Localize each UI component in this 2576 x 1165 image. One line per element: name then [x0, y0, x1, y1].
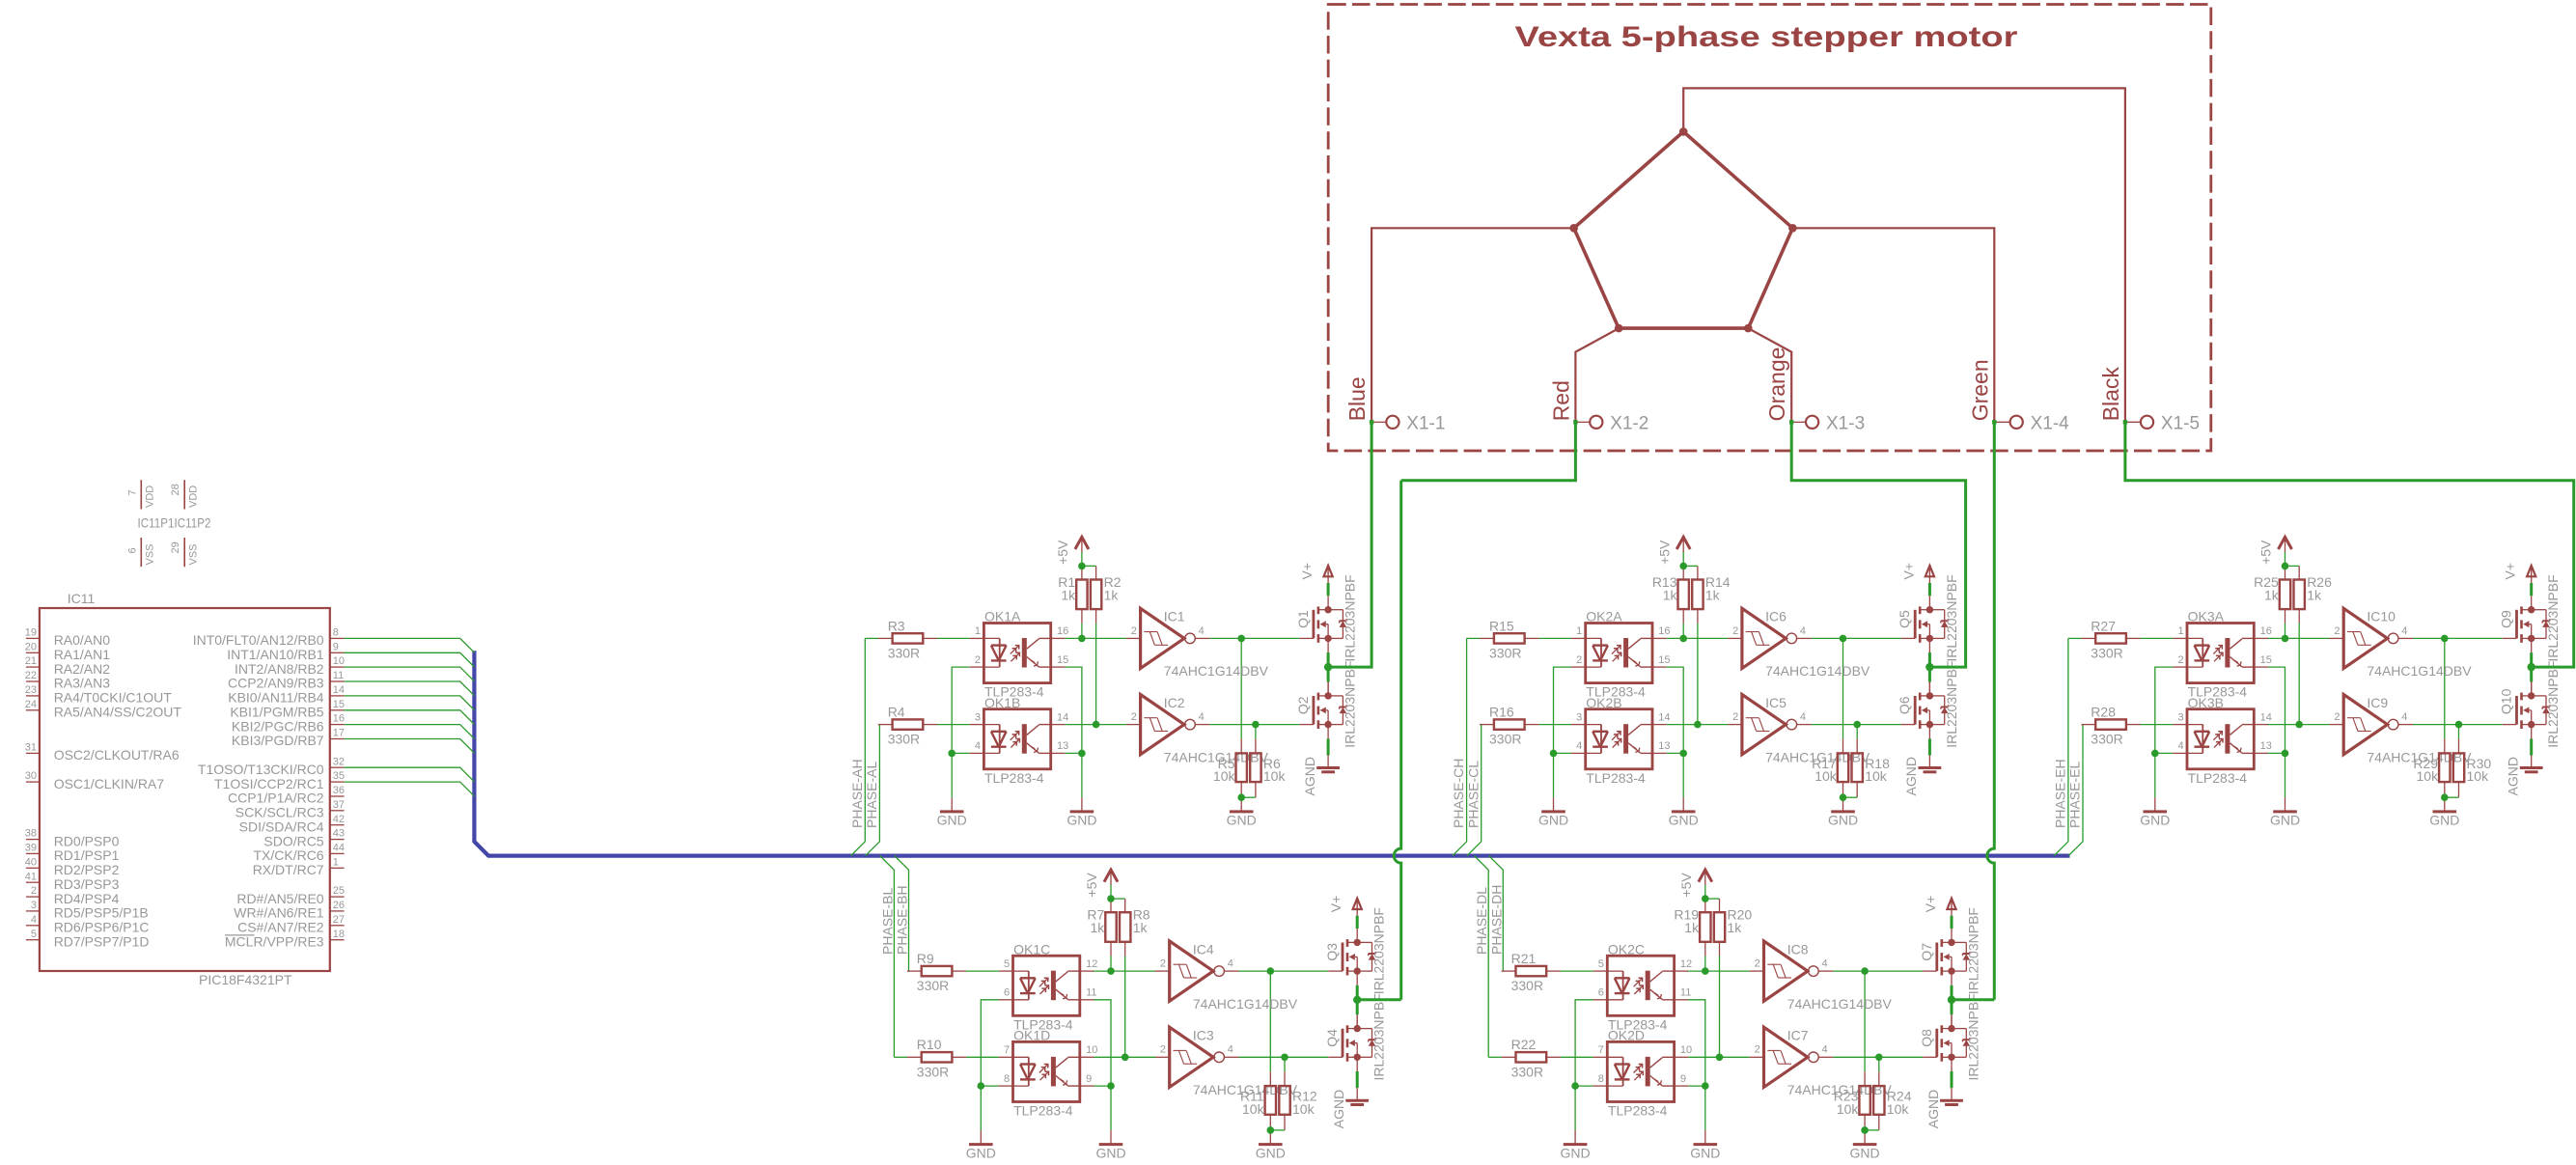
- wire +5V split: [2285, 565, 2300, 567]
- svg-text:V+: V+: [1900, 563, 1916, 580]
- svg-text:RD#/AN5/RE0: RD#/AN5/RE0: [236, 891, 323, 906]
- junction phase D node: [1948, 996, 1955, 1004]
- wire emitter chain to GND: [1682, 753, 1684, 797]
- svg-text:PIC18F4321PT: PIC18F4321PT: [199, 972, 292, 987]
- svg-text:IC1: IC1: [1164, 609, 1185, 624]
- svg-text:30: 30: [25, 770, 37, 782]
- svg-text:GND: GND: [937, 813, 967, 828]
- supply +5V: [1055, 537, 1089, 565]
- resistor R8 1k: [1120, 907, 1150, 942]
- resistor R13 1k: [1652, 574, 1689, 609]
- svg-text:R28: R28: [2091, 705, 2116, 720]
- svg-text:74AHC1G14DBV: 74AHC1G14DBV: [1765, 663, 1870, 679]
- svg-text:37: 37: [333, 799, 345, 811]
- svg-text:18: 18: [333, 929, 345, 940]
- svg-text:RD5/PSP5/P1B: RD5/PSP5/P1B: [54, 905, 149, 921]
- resistor R3 330R: [878, 618, 937, 660]
- wire OK1D emitter: [1094, 1085, 1112, 1087]
- wire V+ to Q7 drain: [1951, 916, 1953, 929]
- svg-text:26: 26: [333, 900, 345, 911]
- svg-text:2: 2: [1732, 711, 1738, 723]
- svg-text:OK3B: OK3B: [2188, 695, 2224, 710]
- resistor R10 330R: [907, 1037, 966, 1079]
- svg-text:KBI2/PGC/RB6: KBI2/PGC/RB6: [232, 718, 324, 734]
- wire Q7 gate to R23: [1864, 971, 1866, 1071]
- wire R22 to OK2D pin anode: [1561, 1056, 1593, 1058]
- wire PHASE-DL: [1475, 856, 1489, 1058]
- ground GND: [1828, 797, 1858, 828]
- svg-text:IRL2203NPBF: IRL2203NPBF: [1944, 661, 1959, 748]
- svg-text:RX/DT/RC7: RX/DT/RC7: [253, 862, 324, 877]
- supply +5V: [1656, 537, 1690, 565]
- svg-text:11: 11: [1086, 987, 1096, 999]
- junction emitter chain: [1702, 1082, 1709, 1090]
- svg-text:Red: Red: [1548, 380, 1573, 421]
- wire +5V split: [1705, 898, 1720, 900]
- svg-text:IC5: IC5: [1765, 695, 1787, 710]
- wire R2 to node: [1095, 609, 1097, 624]
- svg-text:2: 2: [1732, 625, 1738, 637]
- wire IC11 RB/RC signal 2 to bus: [345, 652, 475, 667]
- wire R4 to OK1B pin anode: [937, 724, 970, 726]
- inverter IC8 (74AHC1G14DBV): [1750, 941, 1893, 1012]
- junction R1/OK1A collector: [1078, 635, 1086, 643]
- svg-text:13: 13: [2260, 740, 2272, 752]
- svg-text:6: 6: [126, 547, 138, 553]
- wire phase node vertical: [2530, 652, 2533, 681]
- svg-text:Vexta 5-phase stepper motor: Vexta 5-phase stepper motor: [1515, 21, 2018, 53]
- wire Q2 gate to R6: [1255, 725, 1257, 739]
- IC11 right pins: [193, 627, 345, 950]
- svg-text:GND: GND: [2270, 813, 2300, 828]
- svg-text:OK2A: OK2A: [1586, 609, 1622, 624]
- wire +5V feed: [1110, 885, 1112, 900]
- svg-text:Q9: Q9: [2499, 610, 2514, 628]
- transistor Q1 IRL2203NPBF: [1295, 574, 1358, 661]
- junction 10k ground: [2441, 793, 2449, 801]
- wire phase B to Q3/Q4: [1357, 998, 1401, 1001]
- wire R19 to node: [1704, 942, 1706, 957]
- wire PHASE-DH: [1489, 856, 1504, 972]
- wire Q8 source to AGND: [1951, 1071, 1953, 1088]
- wire PHASE-BL to R10: [894, 1056, 907, 1058]
- svg-text:330R: 330R: [1489, 646, 1521, 661]
- wire motor Blue lead: [1371, 228, 1574, 422]
- svg-text:Q2: Q2: [1295, 696, 1311, 714]
- svg-text:1k: 1k: [1133, 920, 1149, 935]
- svg-text:OK2C: OK2C: [1608, 941, 1645, 957]
- svg-text:OK1B: OK1B: [984, 695, 1020, 710]
- wire Q10 gate to R30: [2458, 725, 2460, 739]
- svg-text:10k: 10k: [1292, 1101, 1316, 1117]
- svg-text:43: 43: [333, 828, 345, 840]
- inverter IC7 (74AHC1G14DBV): [1750, 1027, 1893, 1097]
- svg-text:10: 10: [333, 655, 345, 667]
- svg-text:15: 15: [333, 699, 345, 710]
- junction +5V split: [1702, 895, 1709, 902]
- transistor Q6 IRL2203NPBF: [1897, 661, 1959, 748]
- wire OK2D cathode: [1575, 1085, 1593, 1087]
- junction IC9 output: [2455, 721, 2463, 729]
- junction +5V split: [1107, 895, 1115, 902]
- wire OK1B emitter: [1065, 752, 1082, 754]
- svg-text:PHASE-EL: PHASE-EL: [2067, 762, 2083, 828]
- wire PHASE-AL to R4: [878, 724, 880, 726]
- wire IC3 out to Q4 gate: [1239, 1056, 1329, 1058]
- junction cathode chain: [2151, 750, 2159, 758]
- svg-text:TLP283-4: TLP283-4: [2188, 770, 2248, 786]
- svg-text:OSC2/CLKOUT/RA6: OSC2/CLKOUT/RA6: [54, 747, 180, 763]
- svg-text:15: 15: [2260, 654, 2272, 666]
- wire V+ to Q5 drain: [1928, 583, 1931, 596]
- inverter IC9 (74AHC1G14DBV): [2330, 695, 2473, 765]
- svg-text:74AHC1G14DBV: 74AHC1G14DBV: [1164, 749, 1269, 764]
- wire +5V to R2: [1095, 566, 1097, 579]
- svg-text:3: 3: [31, 900, 37, 911]
- junction phase A node: [1324, 663, 1332, 671]
- power pin IC11P1 VDD (pin 7): [126, 480, 155, 509]
- svg-text:15: 15: [1057, 654, 1068, 666]
- transistor Q5 IRL2203NPBF: [1897, 574, 1959, 661]
- wire +5V to R20: [1719, 899, 1721, 912]
- svg-text:4: 4: [2401, 625, 2407, 637]
- resistor R24 10k: [1873, 1086, 1912, 1117]
- optocoupler OK1D (TLP283-4): [999, 1028, 1098, 1119]
- svg-text:IC11: IC11: [68, 591, 96, 606]
- wire phase node vertical: [1356, 985, 1359, 1014]
- wire Q5 gate to R17: [1842, 638, 1844, 738]
- svg-text:36: 36: [333, 785, 345, 796]
- svg-text:RD0/PSP0: RD0/PSP0: [54, 833, 120, 848]
- wire motor Green lead: [1792, 228, 1994, 422]
- svg-text:19: 19: [25, 627, 37, 639]
- svg-text:5: 5: [31, 929, 37, 940]
- wire R25 to node: [2285, 609, 2286, 624]
- svg-text:330R: 330R: [917, 978, 949, 993]
- svg-text:4: 4: [975, 740, 981, 752]
- svg-text:2: 2: [1160, 958, 1166, 970]
- svg-text:OK2D: OK2D: [1608, 1028, 1645, 1043]
- svg-text:PHASE-CH: PHASE-CH: [1451, 759, 1466, 828]
- svg-text:TX/CK/RC6: TX/CK/RC6: [253, 847, 323, 863]
- wire +5V to R8: [1124, 899, 1126, 912]
- wire IC2 out to Q2 gate: [1209, 724, 1299, 726]
- junction R2/OK1B collector: [1093, 721, 1100, 729]
- junction emitter chain: [1107, 1082, 1115, 1090]
- svg-text:10k: 10k: [2467, 768, 2490, 784]
- svg-text:10k: 10k: [1263, 768, 1287, 784]
- svg-text:330R: 330R: [1489, 732, 1521, 747]
- svg-text:7: 7: [126, 489, 138, 495]
- wire OK1C collector to IC4: [1094, 970, 1156, 972]
- svg-text:1k: 1k: [1663, 587, 1678, 602]
- junction X1-5: [2123, 420, 2127, 424]
- wire phase B (Red) down from X1-2: [1401, 422, 1576, 481]
- svg-text:CCP1/P1A/RC2: CCP1/P1A/RC2: [228, 791, 324, 806]
- transistor Q2 IRL2203NPBF: [1295, 661, 1358, 748]
- bus from IC11 to driver blocks: [474, 651, 2069, 855]
- svg-text:RA4/T0CKI/C1OUT: RA4/T0CKI/C1OUT: [54, 690, 173, 706]
- ground AGND: [1331, 1088, 1369, 1128]
- svg-text:GND: GND: [1669, 813, 1699, 828]
- svg-text:22: 22: [25, 670, 37, 681]
- wire 10k bottoms to GND: [1240, 782, 1242, 797]
- wire IC11 RB/RC signal 8 to bus: [345, 739, 475, 754]
- ground GND: [2429, 797, 2459, 828]
- svg-text:IC10: IC10: [2367, 609, 2396, 624]
- wire PHASE-EH: [2054, 638, 2068, 855]
- svg-text:1: 1: [2177, 625, 2183, 637]
- wire R21 to OK2C pin anode: [1561, 970, 1593, 972]
- svg-text:2: 2: [1755, 1044, 1760, 1056]
- resistor R27 330R: [2082, 618, 2141, 660]
- wire PHASE-EH to R27: [2068, 637, 2082, 639]
- wire +5V split: [1082, 565, 1096, 567]
- wire OK1A emitter down: [1065, 667, 1082, 753]
- resistor R29 10k: [2413, 753, 2450, 784]
- svg-text:6: 6: [1004, 987, 1010, 999]
- transistor Q3 IRL2203NPBF: [1324, 907, 1387, 994]
- svg-text:IRL2203NPBF: IRL2203NPBF: [1965, 993, 1980, 1080]
- wire Q4 gate to R12: [1284, 1057, 1286, 1071]
- svg-text:2: 2: [2334, 711, 2340, 723]
- svg-text:13: 13: [1057, 740, 1068, 752]
- svg-text:4: 4: [1228, 1044, 1233, 1056]
- optocoupler OK3A (TLP283-4): [2173, 609, 2272, 700]
- svg-text:9: 9: [1086, 1073, 1092, 1085]
- wire PHASE-CL: [1467, 725, 1482, 856]
- svg-text:23: 23: [25, 684, 37, 696]
- power pin IC11P2 VDD (pin 28): [170, 480, 199, 509]
- svg-text:10k: 10k: [1887, 1101, 1910, 1117]
- wire +5V to R1: [1081, 566, 1083, 579]
- wire IC7 out to Q8 gate: [1833, 1056, 1923, 1058]
- resistor R20 1k: [1714, 907, 1753, 942]
- junction cathode chain: [948, 750, 956, 758]
- wire R16 to OK2B pin anode: [1538, 724, 1571, 726]
- wire cathode chain to GND: [980, 1086, 982, 1130]
- wire OK3A collector to IC10: [2268, 637, 2330, 639]
- ground GND: [1066, 797, 1096, 828]
- wire OK1B collector to IC2: [1065, 724, 1126, 726]
- svg-text:IC11P1IC11P2: IC11P1IC11P2: [138, 515, 211, 531]
- svg-text:PHASE-DL: PHASE-DL: [1474, 887, 1489, 955]
- ground GND: [1256, 1130, 1286, 1161]
- wire PHASE-CL to R16: [1480, 724, 1482, 726]
- svg-text:R10: R10: [917, 1037, 942, 1052]
- svg-text:+5V: +5V: [1656, 540, 1672, 565]
- svg-text:GND: GND: [1538, 813, 1568, 828]
- svg-text:KBI1/PGM/RB5: KBI1/PGM/RB5: [230, 705, 323, 720]
- wire PHASE-EL to R28: [2082, 724, 2084, 726]
- inverter IC3 (74AHC1G14DBV): [1155, 1027, 1298, 1097]
- wire IC11 RB/RC signal 6 to bus: [345, 710, 475, 725]
- wire Q6 gate to R18: [1856, 725, 1858, 739]
- node pentagon vertex A: [1679, 127, 1688, 136]
- svg-text:WR#/AN6/RE1: WR#/AN6/RE1: [234, 905, 324, 921]
- ground GND: [937, 797, 967, 828]
- transistor Q7 IRL2203NPBF: [1919, 907, 1981, 994]
- wire +5V split: [1111, 898, 1125, 900]
- svg-text:AGND: AGND: [1925, 1090, 1941, 1128]
- svg-text:RD4/PSP4: RD4/PSP4: [54, 891, 120, 906]
- svg-text:IC6: IC6: [1765, 609, 1787, 624]
- svg-text:2: 2: [1131, 711, 1137, 723]
- svg-text:PHASE-AL: PHASE-AL: [864, 762, 879, 828]
- wire motor Orange lead: [1748, 328, 1791, 422]
- svg-text:1k: 1k: [2264, 587, 2280, 602]
- svg-text:21: 21: [25, 655, 37, 667]
- junction emitter chain: [1078, 750, 1086, 758]
- resistor R30 10k: [2453, 753, 2492, 784]
- junction +5V split: [1679, 563, 1687, 570]
- wire PHASE-EL: [2068, 725, 2083, 856]
- svg-text:MCLR/VPP/RE3: MCLR/VPP/RE3: [225, 933, 324, 949]
- svg-text:4: 4: [2177, 740, 2183, 752]
- junction IC8 output: [1861, 967, 1869, 975]
- wire phase E (Black) from X1-5 around right edge: [2125, 422, 2574, 667]
- svg-text:330R: 330R: [2091, 646, 2122, 661]
- svg-text:AGND: AGND: [1903, 757, 1919, 795]
- svg-text:IC4: IC4: [1193, 941, 1214, 957]
- svg-text:R4: R4: [888, 705, 905, 720]
- supply +5V: [1084, 870, 1118, 898]
- svg-text:4: 4: [1822, 958, 1828, 970]
- svg-text:KBI3/PGD/RB7: KBI3/PGD/RB7: [232, 733, 324, 748]
- svg-text:PHASE-CL: PHASE-CL: [1465, 761, 1481, 828]
- svg-text:AGND: AGND: [2506, 757, 2521, 795]
- wire cathode chain to GND: [1553, 753, 1555, 797]
- svg-text:+5V: +5V: [2258, 540, 2274, 565]
- svg-text:40: 40: [25, 856, 37, 868]
- svg-text:74AHC1G14DBV: 74AHC1G14DBV: [1787, 996, 1893, 1012]
- resistor R19 1k: [1674, 907, 1710, 942]
- junction X1-3: [1789, 420, 1793, 424]
- wire +5V feed: [2285, 552, 2286, 567]
- svg-text:31: 31: [25, 742, 37, 754]
- wire V+ to Q1 drain: [1327, 583, 1330, 596]
- svg-text:1k: 1k: [1684, 920, 1700, 935]
- svg-text:V+: V+: [1328, 896, 1343, 913]
- resistor R17 10k: [1812, 753, 1848, 784]
- resistor R5 10k: [1213, 753, 1247, 784]
- wire R27 to OK3A pin anode: [2141, 637, 2174, 639]
- transistor Q4 IRL2203NPBF: [1324, 993, 1387, 1080]
- wire PHASE-CH to R15: [1467, 637, 1481, 639]
- svg-text:32: 32: [333, 756, 345, 767]
- wire IC11 RB/RC signal 5 to bus: [345, 696, 475, 710]
- node pentagon vertex D: [1615, 324, 1623, 333]
- svg-text:14: 14: [2260, 711, 2272, 723]
- svg-text:8: 8: [1598, 1073, 1604, 1085]
- svg-text:V+: V+: [1923, 896, 1938, 913]
- svg-text:IC3: IC3: [1193, 1028, 1214, 1043]
- wire 10k bottoms to GND: [1842, 782, 1844, 797]
- junction R8/OK1D collector: [1122, 1054, 1129, 1062]
- wire IC11 RB/RC signal 1 to bus: [345, 638, 475, 652]
- svg-text:PHASE-AH: PHASE-AH: [849, 759, 865, 828]
- node pentagon vertex C: [1788, 224, 1797, 233]
- wire Q3 gate to R11: [1269, 971, 1271, 1071]
- svg-text:GND: GND: [1828, 813, 1858, 828]
- wire OK2A emitter down: [1667, 667, 1684, 753]
- svg-text:RA3/AN3: RA3/AN3: [54, 676, 111, 691]
- power pin IC11P2 VSS (pin 29): [170, 538, 199, 567]
- svg-text:AGND: AGND: [1331, 1090, 1346, 1128]
- svg-text:+5V: +5V: [1084, 873, 1099, 898]
- wire R20 to node: [1719, 942, 1721, 957]
- ground GND: [1095, 1130, 1125, 1161]
- junction 10k ground: [1861, 1126, 1869, 1134]
- junction phase C node: [1925, 663, 1933, 671]
- svg-text:RA5/AN4/SS/C2OUT: RA5/AN4/SS/C2OUT: [54, 705, 182, 720]
- junction IC1 output: [1237, 635, 1245, 643]
- wire +5V to R26: [2298, 566, 2300, 579]
- svg-text:R3: R3: [888, 618, 905, 633]
- svg-text:TLP283-4: TLP283-4: [1608, 1103, 1668, 1119]
- svg-text:3: 3: [975, 711, 981, 723]
- overline MCLR: [225, 934, 255, 936]
- svg-text:TLP283-4: TLP283-4: [1586, 770, 1646, 786]
- svg-text:4: 4: [1822, 1044, 1828, 1056]
- wire emitter chain to GND: [1081, 753, 1083, 797]
- svg-text:Green: Green: [1967, 359, 1992, 421]
- wire IC11 RB/RC signal 4 to bus: [345, 681, 475, 696]
- svg-text:Q5: Q5: [1897, 610, 1912, 628]
- svg-text:29: 29: [170, 541, 181, 553]
- svg-text:14: 14: [1057, 711, 1068, 723]
- junction X1-4: [1992, 420, 1996, 424]
- wire OK3B collector to IC9: [2268, 724, 2330, 726]
- svg-text:AGND: AGND: [1302, 757, 1317, 795]
- junction R20/OK2D collector: [1716, 1054, 1724, 1062]
- wire OK3A cathode down: [2155, 667, 2174, 753]
- wire OK2C cathode down: [1575, 1000, 1593, 1086]
- svg-text:74AHC1G14DBV: 74AHC1G14DBV: [1193, 996, 1298, 1012]
- wire motor Red lead: [1575, 328, 1619, 422]
- svg-text:330R: 330R: [1511, 978, 1543, 993]
- svg-text:R15: R15: [1489, 618, 1514, 633]
- resistor R6 10k: [1250, 753, 1286, 784]
- svg-text:Q1: Q1: [1295, 610, 1311, 628]
- svg-text:GND: GND: [966, 1145, 996, 1160]
- supply V+: [1923, 896, 1956, 916]
- junction R14/OK2B collector: [1694, 721, 1702, 729]
- svg-text:35: 35: [333, 770, 345, 782]
- wire emitter chain to GND: [1704, 1086, 1706, 1130]
- svg-text:GND: GND: [1256, 1145, 1286, 1160]
- wire V+ to Q3 drain: [1356, 916, 1359, 929]
- wire Q8 gate to R24: [1878, 1057, 1880, 1071]
- wire PHASE-AH to R3: [865, 637, 878, 639]
- resistor R16 330R: [1480, 705, 1538, 747]
- junction phase E node: [2528, 663, 2535, 671]
- svg-text:6: 6: [1598, 987, 1604, 999]
- IC11 left pins: [25, 627, 182, 950]
- svg-text:17: 17: [333, 728, 345, 739]
- wire +5V to R14: [1697, 566, 1699, 579]
- svg-text:+5V: +5V: [1678, 873, 1694, 898]
- svg-text:28: 28: [170, 484, 181, 495]
- inverter IC1 (74AHC1G14DBV): [1126, 608, 1269, 679]
- resistor R23 10k: [1834, 1086, 1870, 1117]
- svg-text:9: 9: [333, 641, 339, 652]
- svg-text:12: 12: [1680, 958, 1692, 970]
- wire Q9 gate to R29: [2444, 638, 2446, 738]
- svg-text:39: 39: [25, 843, 37, 854]
- svg-text:8: 8: [333, 627, 339, 639]
- wire IC11 RB/RC signal 7 to bus: [345, 725, 475, 739]
